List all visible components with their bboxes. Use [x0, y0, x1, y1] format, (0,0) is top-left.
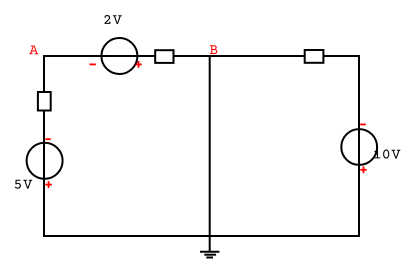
wire middle (node B down to ground junction): [209, 56, 211, 236]
voltage source V3 (10V, circle): [341, 129, 377, 165]
voltage source V2 (5V, circle): [27, 143, 63, 179]
resistor R3 (left vertical box): [38, 92, 51, 111]
resistor R2 (top-right box): [305, 50, 324, 63]
wire left (node A down to bottom-left corner, through R3 and V2): [43, 55, 45, 237]
ground: [200, 236, 219, 258]
node B label: [210, 45, 217, 54]
wire bottom (bottom-left to bottom-right corner): [44, 235, 360, 237]
resistor R1 (top-left box): [155, 50, 173, 63]
node A label: [29, 46, 38, 55]
wire right (top-right corner down to bottom-right corner, through V3): [358, 55, 360, 237]
V3 plus sign: [360, 166, 366, 173]
V1 minus sign: [90, 63, 96, 65]
V2 minus sign: [45, 138, 51, 140]
value label 5V: [15, 180, 32, 189]
wire top (node A to node B, through source V1 and resistor R1): [44, 55, 210, 57]
value label 10V: [374, 150, 400, 159]
V3 minus sign: [360, 123, 366, 125]
V2 plus sign: [45, 181, 52, 188]
value label 2V: [104, 15, 121, 24]
wire top-right (node B to top-right corner, through resistor R2): [210, 55, 360, 57]
voltage source V1 (2V, circle): [101, 38, 137, 74]
V1 plus sign: [135, 61, 141, 68]
